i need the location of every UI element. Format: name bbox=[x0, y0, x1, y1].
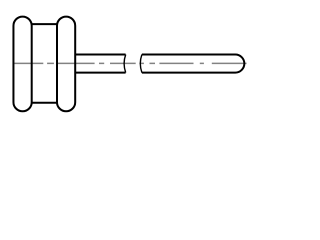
right flange capsule bbox=[57, 17, 75, 112]
centerline (dash-dot axis) bbox=[14, 62, 246, 64]
shaft segment 1 bbox=[75, 55, 125, 73]
shaft segment 2 with rounded end bbox=[142, 55, 244, 73]
hub bottom line bbox=[32, 102, 57, 104]
break line 2 bbox=[140, 55, 142, 73]
left flange capsule bbox=[13, 17, 31, 112]
hub top line bbox=[32, 23, 57, 25]
break line 1 bbox=[124, 55, 126, 73]
